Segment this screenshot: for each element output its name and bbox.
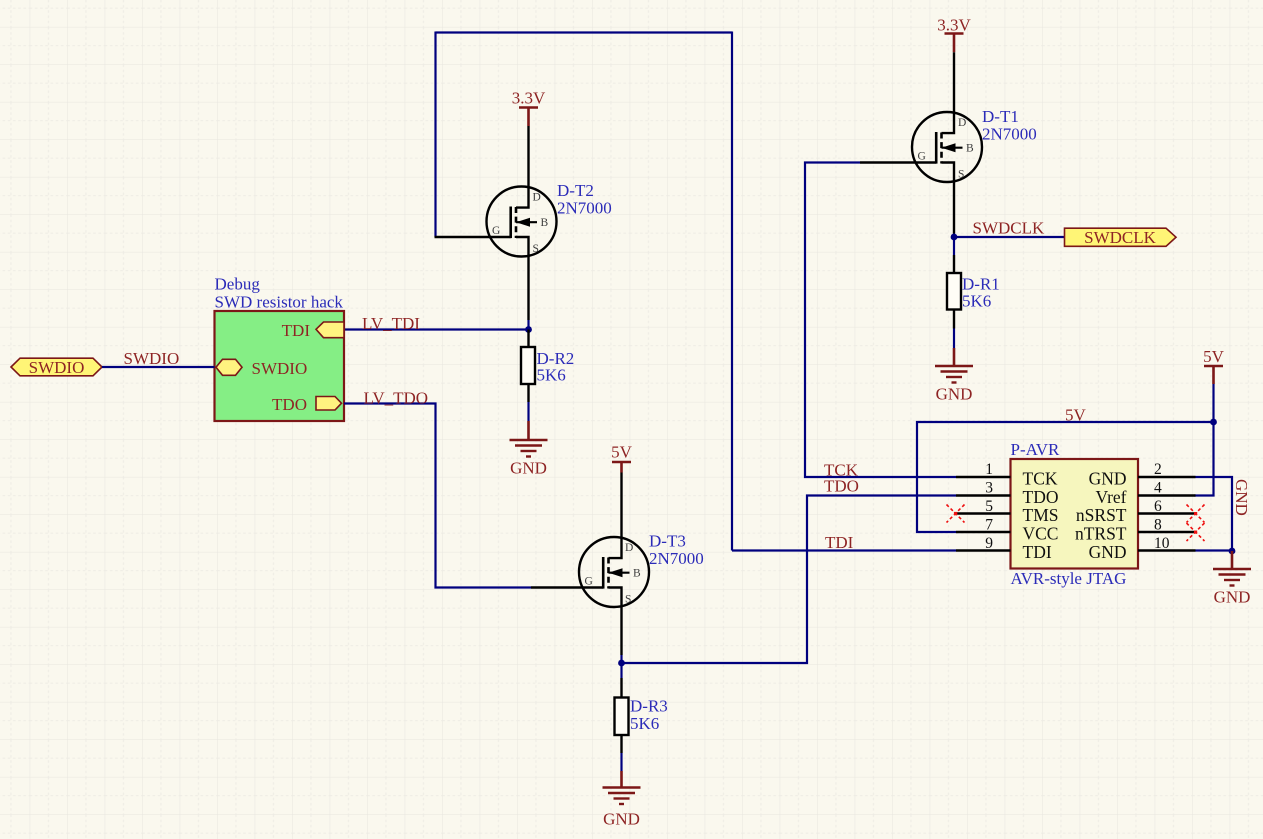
wire junction to D-R1 xyxy=(953,237,955,255)
svg-text:Vref: Vref xyxy=(1095,487,1126,507)
svg-text:GND: GND xyxy=(510,459,547,478)
wire net 5V to P-AVR pin 4 Vref xyxy=(1195,422,1214,496)
wire net 5V horizontal and down to P-AVR pin 7 xyxy=(917,422,1214,532)
svg-text:GND: GND xyxy=(1089,468,1127,488)
svg-text:TDO: TDO xyxy=(272,395,307,414)
svg-text:5K6: 5K6 xyxy=(962,292,991,311)
svg-text:3.3V: 3.3V xyxy=(937,16,971,35)
svg-text:5V: 5V xyxy=(1203,347,1225,366)
pin D-R1 top xyxy=(953,255,955,273)
svg-text:TMS: TMS xyxy=(1023,505,1059,525)
ground GND under D-R1 xyxy=(935,348,973,404)
svg-text:D: D xyxy=(958,117,966,129)
wire T2 source tail xyxy=(527,320,529,330)
svg-text:7: 7 xyxy=(985,517,993,534)
svg-text:1: 1 xyxy=(985,461,993,478)
wire net TCK from T1 gate to P-AVR pin 1 xyxy=(805,163,956,478)
svg-text:GND: GND xyxy=(603,810,640,829)
svg-text:D-R3: D-R3 xyxy=(630,697,668,716)
wire net TDI row to P-AVR pin 9 xyxy=(732,549,956,551)
pin 10 GND xyxy=(1138,549,1196,551)
wire junction to D-R3 xyxy=(620,663,622,678)
ground GND right xyxy=(1213,551,1251,607)
sheet part Debug SWD resistor hack (green box) xyxy=(215,275,345,422)
power port 3.3V for D-T2 xyxy=(512,89,546,127)
svg-text:G: G xyxy=(492,225,500,237)
wire net 5V vertical from power port xyxy=(1212,384,1214,422)
svg-text:3.3V: 3.3V xyxy=(512,89,546,108)
pin 5 TMS xyxy=(956,512,1011,514)
svg-text:5V: 5V xyxy=(611,443,633,462)
wire net LV_TDI xyxy=(344,328,529,330)
svg-text:2: 2 xyxy=(1154,461,1162,478)
wire net TDI left vertical to T2 gate xyxy=(434,32,436,238)
svg-text:D-T2: D-T2 xyxy=(557,181,594,200)
svg-text:SWDIO: SWDIO xyxy=(252,359,308,378)
junction dot LV_TDI / D-R2 xyxy=(525,326,532,333)
svg-text:GND: GND xyxy=(936,385,973,404)
svg-text:S: S xyxy=(533,243,539,255)
svg-text:G: G xyxy=(918,151,926,163)
transistor Q D-T1 2N7000 xyxy=(912,52,982,233)
pin D-R3 bottom xyxy=(620,735,622,753)
pin 2 GND xyxy=(1138,476,1196,478)
svg-text:VCC: VCC xyxy=(1023,523,1059,543)
no-ERC cross on pin 5 xyxy=(947,505,965,523)
wire T3 source tail xyxy=(620,655,622,663)
svg-text:S: S xyxy=(625,594,631,606)
svg-text:5K6: 5K6 xyxy=(537,366,566,385)
svg-text:5K6: 5K6 xyxy=(630,714,659,733)
no-ERC cross on pin 6 xyxy=(1187,505,1205,523)
transistor Q D-T2 2N7000 xyxy=(487,126,557,320)
svg-text:TCK: TCK xyxy=(1023,468,1058,488)
pin 3 TDO xyxy=(956,494,1011,496)
svg-text:GND: GND xyxy=(1089,542,1127,562)
power port 5V (right) xyxy=(1203,347,1225,384)
svg-text:G: G xyxy=(585,576,593,588)
svg-text:TCK: TCK xyxy=(824,461,859,480)
ground GND under D-R3 xyxy=(603,771,641,829)
resistor D-R3 xyxy=(615,698,629,736)
svg-text:B: B xyxy=(966,143,974,155)
pin 4 Vref xyxy=(1138,494,1196,496)
pin D-T2 gate lead xyxy=(435,236,511,238)
svg-text:S: S xyxy=(958,169,964,181)
svg-text:5: 5 xyxy=(985,498,993,515)
svg-text:B: B xyxy=(541,217,549,229)
wire net SWDIO xyxy=(102,366,215,368)
resistor D-R2 xyxy=(521,347,535,384)
pin D-R2 top xyxy=(527,330,529,348)
svg-text:B: B xyxy=(633,568,641,580)
power port 5V for D-T3 xyxy=(611,443,633,473)
wire net LV_TDO xyxy=(344,404,531,588)
pin D-R3 top xyxy=(620,678,622,698)
svg-text:TDI: TDI xyxy=(1023,542,1052,562)
wire T1 source tail xyxy=(953,234,955,238)
junction dot GND xyxy=(1229,548,1236,555)
ground GND under D-R2 xyxy=(510,421,548,478)
pin 6 nSRST xyxy=(1138,512,1196,514)
svg-text:D: D xyxy=(625,542,633,554)
component P-AVR (AVR-style JTAG header) xyxy=(1011,440,1139,588)
svg-text:SWDIO: SWDIO xyxy=(29,358,85,377)
no-ERC cross on pin 8 xyxy=(1187,523,1205,541)
svg-text:Debug: Debug xyxy=(215,275,261,294)
svg-text:AVR-style JTAG: AVR-style JTAG xyxy=(1011,569,1127,588)
pin 7 VCC xyxy=(956,531,1011,533)
port SWDCLK (right) xyxy=(1065,228,1177,247)
svg-text:2N7000: 2N7000 xyxy=(649,549,704,568)
transistor Q D-T3 2N7000 xyxy=(579,473,649,656)
svg-text:nTRST: nTRST xyxy=(1075,523,1127,543)
pin D-T1 gate lead xyxy=(860,161,936,163)
svg-text:SWDCLK: SWDCLK xyxy=(1084,228,1157,247)
svg-text:3: 3 xyxy=(985,480,993,497)
svg-text:2N7000: 2N7000 xyxy=(982,125,1037,144)
svg-text:TDO: TDO xyxy=(1023,487,1059,507)
svg-text:nSRST: nSRST xyxy=(1076,505,1127,525)
svg-text:9: 9 xyxy=(985,535,993,552)
wire net TDI top horizontal xyxy=(436,31,733,33)
svg-text:P-AVR: P-AVR xyxy=(1011,440,1060,459)
svg-text:5V: 5V xyxy=(1065,406,1087,425)
svg-text:SWDCLK: SWDCLK xyxy=(973,219,1046,238)
sheet entry TDI xyxy=(282,321,344,340)
junction dot SWDCLK xyxy=(951,234,958,241)
svg-text:LV_TDI: LV_TDI xyxy=(362,314,420,333)
wire D-R2 to ground xyxy=(527,402,529,421)
resistor D-R1 xyxy=(947,273,961,310)
pin 1 TCK xyxy=(956,476,1011,478)
svg-text:6: 6 xyxy=(1154,498,1162,515)
svg-text:2N7000: 2N7000 xyxy=(557,199,612,218)
pin 9 TDI xyxy=(956,549,1011,551)
wire net TDO from T3 source to P-AVR pin 3 xyxy=(622,496,957,664)
junction dot 5V xyxy=(1210,419,1217,426)
svg-text:D-T3: D-T3 xyxy=(649,532,686,551)
junction dot TDO / D-R3 xyxy=(618,660,625,667)
sheet entry SWDIO xyxy=(216,359,307,378)
svg-text:GND: GND xyxy=(1214,588,1251,607)
pin D-R1 bottom xyxy=(953,310,955,329)
wire D-R3 to ground xyxy=(620,753,622,771)
pin D-R2 bottom xyxy=(527,384,529,402)
sheet entry TDO xyxy=(272,395,341,414)
svg-text:TDI: TDI xyxy=(282,321,311,340)
svg-text:GND: GND xyxy=(1232,479,1251,516)
svg-text:D: D xyxy=(533,192,541,204)
svg-text:10: 10 xyxy=(1154,535,1170,552)
svg-text:SWDIO: SWDIO xyxy=(124,349,180,368)
wire net GND right side xyxy=(1196,477,1233,551)
svg-text:D-T1: D-T1 xyxy=(982,107,1019,126)
svg-text:4: 4 xyxy=(1154,480,1162,497)
wire D-R1 to ground xyxy=(953,329,955,349)
pin 8 nTRST xyxy=(1138,531,1196,533)
port SWDIO (left) xyxy=(11,358,102,377)
svg-text:LV_TDO: LV_TDO xyxy=(364,389,429,408)
pin D-T3 gate lead xyxy=(531,586,603,588)
svg-text:SWD resistor hack: SWD resistor hack xyxy=(215,293,344,312)
wire net SWDCLK to port xyxy=(954,236,1065,238)
svg-text:TDI: TDI xyxy=(825,533,854,552)
svg-text:8: 8 xyxy=(1154,517,1162,534)
power port 3.3V for D-T1 xyxy=(937,16,971,53)
wire net TDI right vertical xyxy=(731,32,733,551)
